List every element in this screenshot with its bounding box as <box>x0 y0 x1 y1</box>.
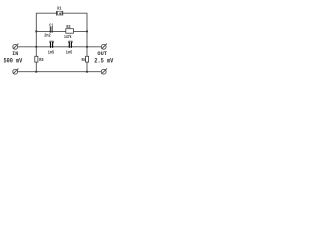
svg-text:OUT: OUT <box>97 51 107 57</box>
svg-text:IN: IN <box>12 51 18 57</box>
terminal IN <box>13 44 19 50</box>
wire main line IN to OUT <box>18 46 102 48</box>
wire middle row <box>36 30 87 32</box>
node J2 main <box>86 46 88 48</box>
resistor R3 <box>35 56 38 62</box>
resistor R4 <box>86 56 89 62</box>
svg-text:X1: X1 <box>57 7 62 12</box>
resistor R2 <box>66 29 74 34</box>
background <box>0 0 120 82</box>
svg-text:1n5: 1n5 <box>48 50 55 56</box>
capacitor C3 <box>69 41 72 48</box>
svg-text:R2: R2 <box>66 24 70 30</box>
node J2 middle <box>86 30 88 32</box>
wire right vertical <box>86 31 88 71</box>
terminal bottom-left <box>13 69 19 75</box>
terminal bottom-right <box>101 69 107 75</box>
crystal X1 <box>57 11 63 16</box>
wire top branch <box>36 13 87 31</box>
svg-text:2.5 mV: 2.5 mV <box>94 58 113 65</box>
svg-text:147k: 147k <box>64 34 72 40</box>
svg-text:2n2: 2n2 <box>44 33 51 39</box>
svg-text:R4: R4 <box>82 57 87 63</box>
node J2 bottom <box>86 71 88 73</box>
svg-text:1n5: 1n5 <box>66 50 73 56</box>
node J1 bottom <box>35 71 37 73</box>
svg-text:500 mV: 500 mV <box>4 58 23 65</box>
terminal OUT <box>101 44 107 50</box>
node J1 main <box>35 46 37 48</box>
capacitor C1 <box>50 27 52 33</box>
node J1 middle <box>35 30 37 32</box>
capacitor C2 <box>50 41 53 48</box>
wire bottom rail <box>18 71 102 73</box>
svg-text:R3: R3 <box>39 57 44 63</box>
svg-text:C1: C1 <box>49 22 53 28</box>
wire left vertical <box>35 31 37 71</box>
